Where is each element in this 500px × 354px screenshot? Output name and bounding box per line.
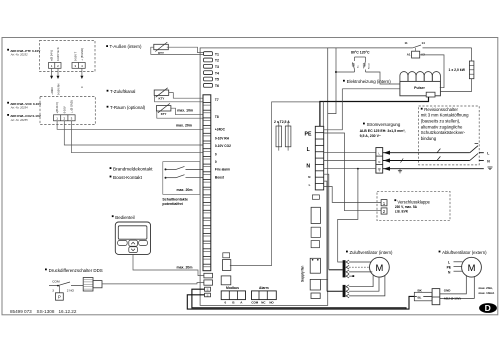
svg-text:3: 3	[52, 289, 54, 293]
svg-text:bindung: bindung	[421, 136, 437, 141]
svg-text:T7: T7	[215, 98, 219, 102]
svg-text:ALB EC 125 EH: 3x1,5 mm²,: ALB EC 125 EH: 3x1,5 mm²,	[360, 129, 406, 133]
svg-text:D: D	[485, 303, 491, 313]
svg-text:L: L	[487, 152, 489, 156]
svg-text:0-10V RH: 0-10V RH	[56, 83, 60, 95]
svg-text:PE: PE	[305, 132, 312, 138]
svg-text:9,5 A, 230 V~: 9,5 A, 230 V~	[360, 134, 381, 138]
svg-text:Abluftventilator (extern): Abluftventilator (extern)	[442, 250, 487, 255]
svg-text:AIRI KWL-CO2 0-10V: AIRI KWL-CO2 0-10V	[10, 114, 42, 118]
svg-text:Alarm: Alarm	[259, 286, 269, 290]
svg-text:Art.-Nr. 20254: Art.-Nr. 20254	[10, 106, 28, 110]
svg-text:Art.-Nr. 20252: Art.-Nr. 20252	[10, 53, 28, 57]
svg-text:T4: T4	[215, 71, 219, 75]
svg-text:0: 0	[215, 152, 217, 156]
svg-text:~24DC: ~24DC	[50, 87, 54, 95]
svg-text:T6: T6	[215, 84, 219, 88]
svg-text:S: S	[206, 293, 208, 297]
svg-text:N: N	[378, 160, 380, 164]
svg-text:T1: T1	[215, 52, 219, 56]
svg-text:COM: COM	[251, 301, 258, 305]
svg-text:Reset: Reset	[368, 63, 371, 69]
svg-text:T2: T2	[215, 59, 219, 63]
svg-text:max. 20m: max. 20m	[177, 188, 193, 192]
svg-text:Schutzkontaktsteckver-: Schutzkontaktsteckver-	[421, 130, 466, 135]
svg-text:alternativ zugängliche: alternativ zugängliche	[421, 124, 463, 129]
svg-text:1 x 2,0 kW: 1 x 2,0 kW	[449, 68, 466, 72]
svg-text:NO: NO	[269, 301, 274, 305]
svg-text:Schaltkontakte: Schaltkontakte	[162, 197, 188, 201]
svg-text:Boost: Boost	[215, 176, 225, 180]
svg-text:T-Raum (optional): T-Raum (optional)	[110, 105, 146, 110]
svg-text:11: 11	[405, 41, 408, 45]
svg-text:0-10V RH: 0-10V RH	[215, 136, 230, 140]
svg-text:0-10V: 0-10V	[62, 106, 66, 113]
svg-text:Bedienteil: Bedienteil	[115, 215, 134, 220]
svg-text:M: M	[375, 262, 383, 273]
svg-text:GND: GND	[444, 288, 452, 292]
svg-text:max. 10m: max. 10m	[177, 108, 193, 112]
svg-text:+(B 24 V): +(B 24 V)	[55, 102, 59, 113]
svg-text:0-10V CO2: 0-10V CO2	[215, 144, 231, 148]
svg-text:SS-1308: SS-1308	[37, 309, 55, 314]
svg-text:Supply fan: Supply fan	[301, 266, 305, 282]
svg-text:Revisionsschalter: Revisionsschalter	[424, 107, 458, 112]
svg-text:T-Zuluftkanal: T-Zuluftkanal	[110, 89, 135, 94]
svg-text:KTY: KTY	[161, 112, 167, 116]
svg-text:Boost-Kontakt: Boost-Kontakt	[113, 175, 143, 180]
svg-text:(bauseits zu stellen),: (bauseits zu stellen),	[421, 119, 460, 124]
svg-text:2 NO: 2 NO	[67, 289, 75, 293]
svg-text:T3: T3	[215, 65, 219, 69]
svg-text:max. 20m: max. 20m	[177, 265, 193, 269]
svg-text:mit 3 mm Kontaktöffnung: mit 3 mm Kontaktöffnung	[421, 113, 469, 118]
svg-text:0-10V % r.F.: 0-10V % r.F.	[56, 47, 60, 61]
svg-text:M: M	[468, 262, 476, 273]
svg-text:max. 10mA: max. 10mA	[479, 291, 496, 295]
svg-text:0: 0	[215, 160, 217, 164]
svg-text:+24DC: +24DC	[215, 128, 226, 132]
svg-text:AIRI KWL-VOC 0-10V: AIRI KWL-VOC 0-10V	[10, 102, 42, 106]
svg-text:KTY: KTY	[159, 97, 165, 101]
svg-text:AIRI KWL-PTF 0-10V: AIRI KWL-PTF 0-10V	[10, 49, 41, 53]
svg-text:16.12.22: 16.12.22	[59, 309, 77, 314]
svg-text:Verschlussklappe: Verschlussklappe	[397, 199, 430, 204]
svg-text:z.B. EVK: z.B. EVK	[395, 210, 409, 214]
svg-text:L: L	[448, 260, 450, 264]
svg-text:L: L	[309, 183, 311, 187]
svg-text:N: N	[308, 175, 310, 179]
svg-text:Modbus: Modbus	[226, 286, 239, 290]
svg-text:P: P	[58, 295, 61, 300]
svg-text:max. 20m,: max. 20m,	[479, 286, 494, 290]
svg-text:85499 073: 85499 073	[10, 309, 32, 314]
svg-text:0-10V T: 0-10V T	[73, 51, 77, 61]
svg-text:Pulser: Pulser	[414, 86, 425, 90]
svg-text:T5: T5	[215, 78, 219, 82]
svg-text:BL: BL	[418, 295, 422, 299]
svg-text:⊥ (B GND): ⊥ (B GND)	[70, 100, 74, 113]
svg-text:Zuluftventilator (intern): Zuluftventilator (intern)	[350, 250, 394, 255]
svg-text:potentialfrei: potentialfrei	[162, 202, 183, 206]
svg-text:T-Außen (intern): T-Außen (intern)	[110, 44, 143, 49]
svg-text:+(B 24 V): +(B 24 V)	[50, 50, 54, 61]
svg-text:N: N	[306, 163, 310, 169]
svg-text:COM: COM	[52, 280, 60, 284]
svg-text:ADJ (0-10V): ADJ (0-10V)	[444, 297, 461, 301]
svg-text:80°C 120°C: 80°C 120°C	[351, 51, 370, 55]
svg-text:Elektroheizung (intern): Elektroheizung (intern)	[347, 79, 392, 84]
svg-text:max. 20m: max. 20m	[176, 123, 192, 127]
svg-text:Brandmeldekontakt: Brandmeldekontakt	[113, 167, 153, 172]
svg-text:14: 14	[422, 41, 426, 45]
svg-text:S: S	[206, 288, 208, 292]
svg-text:⊥ (B GND): ⊥ (B GND)	[80, 48, 84, 61]
svg-text:Fire alarm: Fire alarm	[215, 168, 230, 172]
svg-text:Stromversorgung: Stromversorgung	[367, 122, 401, 127]
svg-text:A1: A1	[407, 53, 411, 57]
svg-text:T8: T8	[215, 115, 219, 119]
svg-text:Art.-Nr. 20255: Art.-Nr. 20255	[10, 118, 28, 122]
svg-text:Druckdifferenzschalter DDS: Druckdifferenzschalter DDS	[49, 268, 103, 273]
